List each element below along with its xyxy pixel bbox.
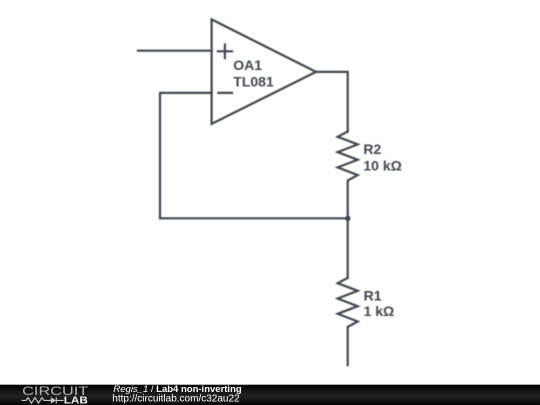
svg-text:1 kΩ: 1 kΩ <box>364 303 395 319</box>
svg-text:R1: R1 <box>364 287 382 303</box>
svg-text:10 kΩ: 10 kΩ <box>363 158 401 174</box>
svg-text:OA1: OA1 <box>233 57 262 73</box>
svg-text:http://circuitlab.com/c32au22: http://circuitlab.com/c32au22 <box>112 394 240 405</box>
svg-text:TL081: TL081 <box>233 73 274 89</box>
svg-text:R2: R2 <box>363 141 381 157</box>
svg-text:LAB: LAB <box>64 396 88 405</box>
